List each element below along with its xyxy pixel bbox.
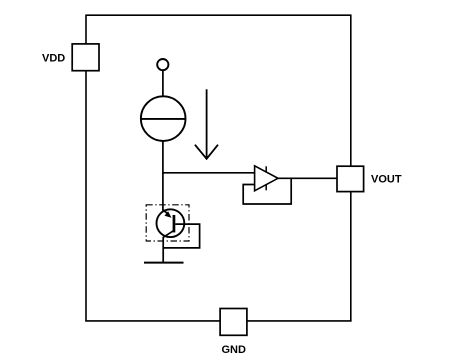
wire node A to transistor emitter xyxy=(162,173,164,211)
port GND xyxy=(220,309,247,336)
svg-text:GND: GND xyxy=(222,344,247,356)
wire bottom border right (from GND port) xyxy=(247,320,352,322)
transistor Q1 (diode-connected PNP) xyxy=(157,209,185,237)
wire left border upper (to VDD port) xyxy=(85,15,87,45)
terminal node (open circle) xyxy=(157,59,168,70)
current direction arrow xyxy=(195,89,218,159)
wire left border lower (from VDD port to bottom-left corner) xyxy=(85,71,87,321)
wire terminal to current source xyxy=(162,70,164,97)
node A wire to buffer input xyxy=(162,172,255,174)
wire right border lower (from VOUT port to bottom-right corner) xyxy=(350,192,352,322)
svg-text:VOUT: VOUT xyxy=(371,173,402,185)
current source I1 xyxy=(141,96,186,141)
wire base-collector tie xyxy=(163,224,200,248)
wire right border upper (to VOUT port) xyxy=(350,15,352,167)
label VOUT xyxy=(371,173,402,185)
port VOUT xyxy=(337,166,364,191)
label VDD xyxy=(42,53,65,65)
ground xyxy=(144,262,184,264)
port VDD xyxy=(72,44,99,71)
op-amp buffer U1 xyxy=(255,166,278,191)
svg-text:VDD: VDD xyxy=(42,53,65,65)
wire current source to node A xyxy=(162,141,164,174)
wire top border xyxy=(86,14,351,16)
dash-dot highlight box around Q1 xyxy=(146,205,189,241)
wire bottom border left (to GND port) xyxy=(85,320,220,322)
wire feedback loop (output to inverting input) xyxy=(243,178,291,204)
wire buffer output to VOUT port xyxy=(278,177,338,179)
label GND xyxy=(222,344,247,356)
wire collector to ground xyxy=(162,237,164,263)
